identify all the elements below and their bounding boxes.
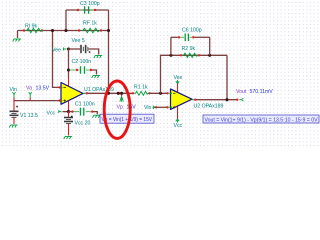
- probe pin Va: [29, 92, 32, 101]
- wire: Vee vertical down to C2: [68, 49, 70, 78]
- svg-text:C3 100p: C3 100p: [80, 1, 100, 7]
- wire: feedback vertical x=108.5: [108, 10, 110, 93]
- junction output feedback corner: [225, 98, 228, 101]
- op-amp U2: [171, 89, 193, 109]
- wire: U1 bottom supply stub: [68, 101, 70, 113]
- jumper pin Vee: [64, 48, 67, 50]
- wire: U2 output row y=99.7: [196, 99, 237, 101]
- svg-text:Vee 5: Vee 5: [72, 38, 85, 44]
- wire: C2 to ground corner: [92, 70, 97, 75]
- junction C2 tap: [67, 68, 70, 71]
- op-amp U1: [61, 83, 83, 105]
- svg-text:Vee: Vee: [52, 48, 61, 54]
- svg-text:Vcc: Vcc: [174, 123, 183, 129]
- pin dots U1 inputs: [61, 87, 63, 89]
- junction C3 left corner: [64, 29, 67, 32]
- wire: C3 top row y=10: [66, 9, 109, 11]
- svg-text:Vcc 20: Vcc 20: [75, 121, 91, 127]
- svg-text:RI 9k: RI 9k: [25, 24, 38, 30]
- formula box Vp: [100, 114, 154, 123]
- plus mark U1: [64, 99, 66, 101]
- junction R2 tap: [159, 92, 162, 95]
- plus mark Vee 5: [89, 51, 91, 53]
- svg-text:C1 100n: C1 100n: [75, 102, 95, 108]
- svg-text:Vout = Vin(1+ 9/1) - Vp(9/1) =: Vout = Vin(1+ 9/1) - Vp(9/1) = 13.5·10 -…: [205, 117, 319, 123]
- junction Vee node: [67, 47, 70, 50]
- wire: U1 inverting input vertical x=52.5: [53, 31, 62, 88]
- svg-text:Va: Va: [26, 86, 32, 92]
- minus mark U2: [173, 92, 175, 94]
- resistor RI: [23, 29, 25, 31]
- svg-text:Vout: Vout: [236, 89, 247, 95]
- wire: RI/RF feedback row y=30.5: [18, 30, 109, 32]
- wire: U1 output row y=93.3: [88, 92, 134, 94]
- wire: vertical to R2 row and R2 row top: [161, 55, 228, 93]
- svg-text:570.11mV: 570.11mV: [250, 89, 274, 95]
- plus mark Vcc 20: [71, 116, 73, 118]
- plus mark V1: [16, 106, 18, 108]
- plus mark U2: [173, 106, 175, 108]
- svg-text:RF 1k: RF 1k: [83, 21, 97, 27]
- wire: feedback down vertical x=227: [226, 55, 228, 99]
- capacitor C6: [178, 36, 180, 38]
- junction C6 right corner: [208, 54, 211, 57]
- svg-text:Vee: Vee: [174, 75, 183, 81]
- wire: Vcc battery bottom stub: [68, 124, 70, 136]
- probe pin Vin (left): [13, 92, 16, 101]
- resistor R2: [180, 54, 182, 56]
- ground at Vee 5: [94, 56, 102, 59]
- resistor RF: [78, 29, 80, 31]
- svg-text:Vin: Vin: [144, 105, 152, 111]
- wire: Vcc battery top stub: [68, 112, 70, 117]
- svg-text:Vp = Vin(1 + 1/9) = 15V: Vp = Vin(1 + 1/9) = 15V: [102, 117, 153, 123]
- ground at C1: [93, 115, 101, 118]
- svg-text:U2 OPAx189: U2 OPAx189: [194, 104, 224, 110]
- wire: Vee node to battery: [69, 48, 81, 50]
- jumper pin Vcc: [59, 110, 62, 113]
- svg-text:13.5V: 13.5V: [36, 86, 50, 92]
- pin U2 output stub: [192, 99, 195, 101]
- red annotation ellipse: [104, 81, 130, 138]
- ground at RI: [13, 39, 21, 42]
- pin dots U2 inputs: [170, 92, 172, 94]
- wire: U2 top supply stub: [177, 84, 179, 93]
- wire: C6 branch verticals: [171, 37, 210, 55]
- jumper pin Vcc (U2 bottom): [176, 119, 179, 123]
- junction C6 left corner: [169, 54, 172, 57]
- wire: C3 left vertical x=66: [65, 10, 67, 31]
- wire: Vcc pin to junction: [63, 111, 69, 113]
- pin U1 output stub: [83, 92, 86, 94]
- wire: U2 bottom supply stub: [177, 107, 179, 120]
- formula box Vout: [203, 115, 319, 123]
- wire: U1 top supply stub: [68, 78, 70, 87]
- pin Vout red dot: [236, 99, 238, 101]
- minus mark U1: [64, 86, 66, 88]
- junction RF right / feedback corner: [107, 29, 110, 32]
- junction inverting node: [51, 29, 54, 32]
- junction Vcc node: [67, 110, 70, 113]
- ground at C2: [92, 76, 100, 79]
- battery Vee 5: [81, 45, 88, 53]
- junction Vp probe: [117, 92, 120, 95]
- wire: V1 bottom stub: [13, 118, 15, 124]
- wire: Vin pin to U2 noninverting input y=107.3: [157, 106, 167, 108]
- svg-text:Vin: Vin: [10, 87, 18, 93]
- wire: V1 top stub: [13, 101, 15, 111]
- svg-text:R1 1k: R1 1k: [134, 85, 148, 91]
- wire: C6 row y=37.3: [171, 36, 178, 38]
- wire: Va row to U1 noninverting input y=100.6: [14, 100, 61, 102]
- wire: R1 to U2 inverting input: [150, 92, 167, 94]
- battery Vcc 20: [64, 118, 73, 124]
- junction feedback at output: [107, 92, 110, 95]
- svg-text:R2 9k: R2 9k: [182, 46, 196, 52]
- svg-text:C6 100p: C6 100p: [182, 28, 202, 34]
- ground at V1: [9, 125, 17, 128]
- wire: C1 to ground corner: [93, 112, 97, 115]
- resistor R1: [132, 92, 134, 94]
- capacitor C2: [70, 69, 77, 71]
- pin U1 noninverting red dot: [59, 99, 61, 101]
- svg-text:Vcc: Vcc: [47, 110, 56, 116]
- svg-text:C2 100n: C2 100n: [72, 59, 92, 65]
- wire: RI ground stub: [17, 31, 19, 39]
- jumper pin Vin right: [153, 106, 156, 109]
- svg-text:V1 13.5: V1 13.5: [20, 113, 38, 119]
- capacitor C3: [77, 9, 79, 11]
- pin U1 inverting red dot: [59, 86, 61, 88]
- probe pin Vp: [121, 94, 123, 96]
- capacitor C1: [71, 110, 73, 112]
- battery V1: [10, 111, 19, 117]
- jumper pin Vee (U2 top): [176, 80, 179, 84]
- ground at Vcc 20: [64, 137, 72, 140]
- svg-text:Vp: Vp: [117, 105, 123, 111]
- probe pin Vout: [239, 98, 243, 101]
- wire: Vcc node to C1: [69, 111, 72, 113]
- wire: Vee battery to ground corner: [89, 49, 99, 55]
